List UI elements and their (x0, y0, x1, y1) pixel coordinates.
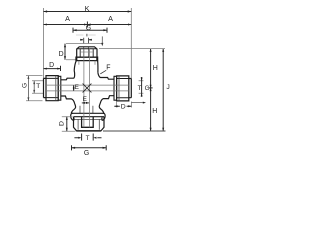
top nut flange (76, 57, 98, 60)
dimension T bottom (82, 134, 94, 141)
dimension H line with G tick (150, 49, 152, 131)
wire extension top right (y=48.6) (99, 48, 165, 50)
body ledge bottom-right (99, 96, 114, 114)
flange brim curl left (71, 113, 74, 120)
wire extension bottom right (y=131) (103, 130, 166, 132)
bottom flange (71, 112, 104, 114)
dimension K line (44, 11, 132, 13)
svg-text:K: K (85, 4, 90, 13)
right boss (114, 76, 117, 100)
svg-text:A: A (65, 14, 70, 23)
svg-text:G: G (22, 83, 29, 88)
svg-text:G: G (145, 85, 150, 92)
svg-text:E: E (83, 96, 87, 103)
dimension T left (32, 81, 43, 93)
svg-text:E: E (75, 84, 79, 91)
svg-text:G: G (86, 25, 91, 32)
bore lines vertical (84, 49, 90, 128)
body ledge top-right (98, 73, 114, 80)
wire corner pointer top-right of nut (101, 36, 103, 43)
dimension D top vertical (66, 44, 102, 60)
dimension G bottom (72, 145, 107, 150)
top nut (77, 47, 97, 57)
bottom neck lines (80, 106, 93, 114)
dimension G left (26, 76, 43, 101)
dimension T right (139, 81, 144, 94)
node center cross X (83, 84, 92, 93)
dimension tube OD top (84, 38, 89, 44)
svg-text:T: T (36, 83, 40, 90)
svg-text:H: H (153, 65, 158, 72)
flange brim curl right (102, 113, 105, 120)
body ledge bottom-left (61, 96, 76, 113)
svg-text:D: D (59, 121, 66, 126)
top skirt right (97, 61, 99, 73)
left boss (58, 76, 61, 100)
node center tick under G (76, 34, 96, 36)
dimension A line (44, 24, 132, 26)
svg-text:D: D (49, 62, 54, 69)
dimension J line (162, 49, 164, 131)
dimension D bottom-left (62, 117, 76, 132)
svg-text:F: F (106, 64, 110, 71)
dimension E bottom arrow (82, 102, 89, 104)
svg-text:J: J (166, 84, 169, 91)
wire extension line left (x=43.5) (43, 8, 45, 78)
dimension D right (117, 101, 132, 108)
dimension E center-left (73, 85, 75, 91)
bore lines horizontal (46, 85, 129, 91)
wire F leader (100, 70, 106, 74)
skirt inner edges (79, 61, 95, 65)
svg-text:G: G (84, 150, 89, 157)
svg-text:T: T (86, 135, 90, 142)
wire extension line right (x=131.3) (130, 8, 132, 79)
bottom nut (74, 117, 105, 131)
tube lines through top nut (84, 47, 89, 57)
wire arm-bottom extension with arrow (132, 102, 144, 104)
dimension D top-left (44, 68, 61, 70)
dimension G top (73, 29, 107, 31)
svg-text:H: H (152, 108, 157, 115)
svg-text:D: D (121, 104, 126, 111)
svg-text:A: A (108, 14, 113, 23)
svg-text:D: D (59, 51, 64, 58)
svg-text:T: T (138, 85, 142, 92)
right nut (117, 76, 132, 101)
left nut (44, 76, 59, 101)
body ledge top-left (61, 71, 75, 80)
top skirt left (74, 61, 76, 71)
